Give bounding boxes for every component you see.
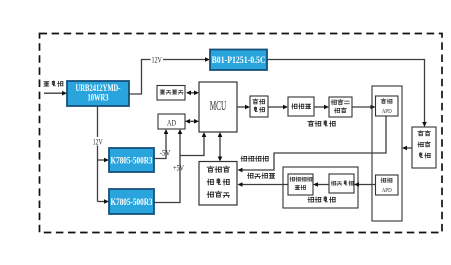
block AD <box>158 114 185 129</box>
svg-text:K7805-500R3: K7805-500R3 <box>111 156 153 166</box>
wire 12V to transformer <box>129 55 210 95</box>
block timing circuit 定时电路 <box>250 96 268 117</box>
svg-text:12V: 12V <box>93 137 103 146</box>
node battery 蓄电池 <box>44 81 63 87</box>
wire driver to laser diode <box>314 106 325 108</box>
svg-text:APD: APD <box>382 108 392 115</box>
svg-text:APD: APD <box>382 187 392 194</box>
wire MCU to timing <box>237 106 246 108</box>
svg-text:K7805-500R3: K7805-500R3 <box>111 197 153 207</box>
wire bias to APD <box>407 147 413 149</box>
block comparator shaping 脉冲比较整形 <box>288 174 313 195</box>
block receiver circuit container 接收电路 <box>283 167 358 208</box>
svg-text:-5V: -5V <box>160 149 171 158</box>
wire battery to DC-DC <box>44 92 63 94</box>
block receive APD 接收APD <box>376 175 399 195</box>
svg-text:MCU: MCU <box>210 99 227 114</box>
wire MCU-TDC bidirectional <box>219 137 221 158</box>
wire timing to driver <box>268 106 284 108</box>
DC-DC converter URB2412YMD-10WR3 <box>67 81 129 106</box>
block laser diode 激光二极管 <box>329 97 352 117</box>
wire transformer to bias circuit <box>267 60 425 123</box>
wire start detect 起始检测 <box>238 116 387 172</box>
wire laser to transmit optics <box>352 106 371 108</box>
wire amplifier to shaping <box>318 184 330 186</box>
block transmit APD 发射APD <box>376 96 399 116</box>
block amplifier 放大电路 <box>329 174 354 193</box>
transformer B01-P1251-0.5C <box>210 50 267 71</box>
wire +5V <box>154 129 206 203</box>
wire display-MCU bidirectional <box>190 92 195 94</box>
block TDC 高精度时间转换芯片 <box>199 162 237 206</box>
regulator K7805-500R3 (bottom) <box>109 189 154 214</box>
block bias circuit 击穿偏压电路 <box>412 127 436 168</box>
svg-text:+5V: +5V <box>173 164 184 173</box>
wire 12V trunk <box>92 106 109 204</box>
wire -5V <box>154 129 171 159</box>
block optical assembly <box>372 86 402 221</box>
regulator K7805-500R3 (top) <box>109 148 154 172</box>
svg-text:B01-P1251-0.5C: B01-P1251-0.5C <box>212 55 266 65</box>
wire APD to amplifier <box>359 184 376 186</box>
svg-text:AD: AD <box>167 119 176 128</box>
block MCU U1 <box>199 82 237 132</box>
svg-text:URB2412YMD-: URB2412YMD- <box>76 83 121 93</box>
wire AD-MCU bidirectional <box>189 120 195 122</box>
svg-text:12V: 12V <box>151 55 162 64</box>
wire stop signal 停止信号 <box>238 173 289 187</box>
label transmitting circuit 发射电路 <box>308 121 335 127</box>
svg-text:10WR3: 10WR3 <box>88 93 109 103</box>
block display unit 显示单元 <box>157 86 185 101</box>
dashed system boundary <box>40 34 443 233</box>
block driver 驱动器 <box>288 97 314 116</box>
